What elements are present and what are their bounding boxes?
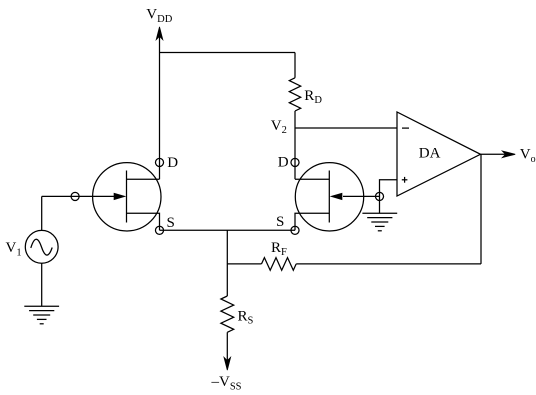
svg-text:V2: V2 — [271, 118, 287, 136]
svg-text:RS: RS — [238, 309, 254, 327]
svg-text:RF: RF — [271, 240, 287, 258]
svg-text:DA: DA — [419, 146, 441, 162]
svg-text:V1: V1 — [6, 240, 22, 259]
svg-text:VDD: VDD — [146, 7, 172, 26]
svg-text:–VSS: –VSS — [211, 374, 242, 393]
svg-text:RD: RD — [304, 88, 322, 106]
svg-text:D: D — [167, 155, 178, 171]
svg-text:S: S — [276, 214, 284, 230]
svg-text:S: S — [167, 215, 175, 231]
svg-text:Vo: Vo — [520, 147, 536, 165]
svg-text:D: D — [278, 155, 289, 171]
